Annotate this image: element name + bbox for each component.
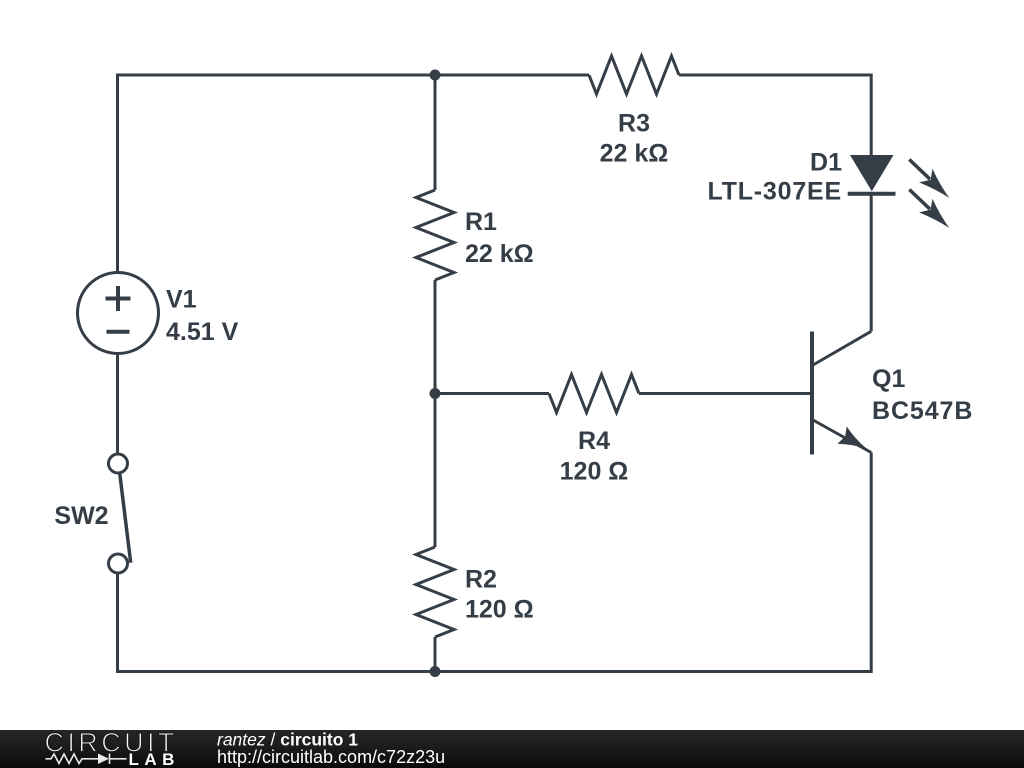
wire V1 minus to SW2 <box>116 354 119 455</box>
wire middle branch top node to R1 <box>434 75 437 190</box>
wire middle node to R4 <box>435 392 549 395</box>
resistor R2 <box>416 547 454 637</box>
switch SW2 <box>109 454 131 573</box>
wire D1 cathode to Q1 collector <box>870 194 873 331</box>
transistor Q1 emitter arrow <box>837 427 866 449</box>
wire Q1 emitter to bottom-right corner and bottom rail <box>118 453 872 672</box>
LED D1 triangle <box>850 155 894 191</box>
transistor Q1 collector diagonal <box>813 331 871 365</box>
resistor R3 <box>589 56 679 94</box>
svg-text:SW2: SW2 <box>54 502 108 530</box>
LED D1 light arrow 1 <box>909 160 949 199</box>
svg-text:120 Ω: 120 Ω <box>465 596 534 624</box>
resistor R4 <box>549 375 639 413</box>
svg-text:22 kΩ: 22 kΩ <box>465 240 534 268</box>
LED D1 cathode bar <box>848 192 896 196</box>
transistor Q1 emitter diagonal <box>813 420 871 453</box>
node top junction <box>430 70 441 81</box>
svg-text:120 Ω: 120 Ω <box>560 458 629 486</box>
node middle junction <box>430 388 441 399</box>
svg-text:BC547B: BC547B <box>872 397 973 425</box>
wire R4 to Q1 base <box>639 392 811 395</box>
transistor Q1 base bar <box>810 332 814 455</box>
CircuitLab logo resistor-diode glyph <box>46 754 127 765</box>
svg-text:R1: R1 <box>465 208 497 236</box>
svg-text:R2: R2 <box>465 566 497 594</box>
svg-text:LTL-307EE: LTL-307EE <box>707 178 842 206</box>
svg-text:Q1: Q1 <box>872 365 905 393</box>
svg-text:http://circuitlab.com/c72z23u: http://circuitlab.com/c72z23u <box>217 747 445 767</box>
footer bar <box>0 730 1024 768</box>
voltage source V1 <box>78 273 159 354</box>
svg-text:R3: R3 <box>618 109 650 137</box>
wire middle node to R2 <box>434 394 437 548</box>
node bottom junction <box>430 666 441 677</box>
svg-text:V1: V1 <box>166 286 197 314</box>
wire top-left from V1 to top node <box>118 75 436 273</box>
svg-text:22 kΩ: 22 kΩ <box>600 140 669 168</box>
svg-text:R4: R4 <box>578 427 610 455</box>
LED D1 light arrow 2 <box>909 190 949 229</box>
wire R1 to middle node <box>434 280 437 394</box>
wire R2 to bottom node <box>434 637 437 672</box>
resistor R1 <box>416 190 454 280</box>
wire R3 to top-right corner down to D1 anode <box>679 75 871 155</box>
svg-text:4.51 V: 4.51 V <box>166 318 239 346</box>
svg-text:D1: D1 <box>810 149 842 177</box>
svg-text:LAB: LAB <box>129 750 180 768</box>
wire top node to R3 <box>435 74 589 77</box>
